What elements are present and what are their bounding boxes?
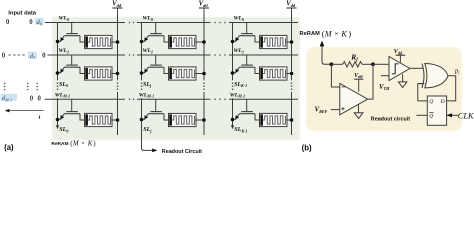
wire bit line 1 with Vdd bar bbox=[112, 8, 122, 135]
node B output bbox=[371, 62, 375, 66]
ReRAM device row 0 col j bbox=[169, 35, 206, 48]
wire bit line 2 with Vdd bar bbox=[199, 8, 209, 135]
transistor cell row 1 col K-1 bbox=[231, 55, 260, 75]
label Readout circuit part b bbox=[371, 116, 410, 122]
transistor cell row 0 col K-1 bbox=[231, 23, 260, 44]
svg-text:SLK-1: SLK-1 bbox=[234, 82, 247, 88]
wire Qbar stub bbox=[417, 114, 428, 116]
input row 1 bit b bbox=[42, 53, 46, 60]
svg-text:(a): (a) bbox=[4, 143, 14, 152]
label SLK-1 bottom bbox=[234, 127, 247, 133]
label SLj middle bbox=[143, 82, 152, 88]
svg-text:D: D bbox=[440, 99, 445, 105]
label Rf bbox=[350, 53, 358, 63]
label pj bbox=[454, 67, 460, 74]
svg-text:Q: Q bbox=[429, 113, 433, 119]
label WL0 (column group 3) bbox=[234, 16, 245, 22]
svg-text:Readout Circuit: Readout Circuit bbox=[162, 149, 202, 155]
wire xor output to D bbox=[447, 76, 456, 101]
time axis arrow bbox=[5, 109, 44, 113]
wire bit line 3 with Vdd bar bbox=[286, 8, 296, 135]
svg-text:Readout circuit: Readout circuit bbox=[371, 116, 410, 122]
label WLM-1 (column group 1) bbox=[55, 92, 70, 98]
label t bbox=[39, 115, 41, 121]
svg-text:×: × bbox=[334, 29, 338, 38]
transistor cell row 1 col 0 bbox=[56, 55, 85, 75]
input row M-1 bit a bbox=[30, 95, 34, 102]
label WL0 (column group 2) bbox=[143, 16, 154, 22]
svg-text:WL1: WL1 bbox=[234, 48, 245, 54]
input d0 highlight bbox=[35, 18, 44, 27]
svg-text:WLM-1: WLM-1 bbox=[230, 92, 245, 98]
wire WL0 row bbox=[45, 22, 298, 24]
resistor Rf bbox=[331, 62, 373, 67]
transistor cell row M-1 col 0 bbox=[56, 99, 85, 121]
comparator U2 bbox=[389, 57, 410, 81]
xor gate G1 bbox=[422, 64, 448, 88]
wire Q feedback to xor bbox=[418, 84, 428, 101]
label SLK-1 middle bbox=[234, 82, 247, 88]
ground op-amp U1 bbox=[354, 104, 363, 119]
power Vdd label column 1 bbox=[112, 1, 122, 8]
label VREF bbox=[315, 107, 328, 114]
wire input arrow to ReRAM bbox=[320, 41, 332, 65]
svg-text:SLj: SLj bbox=[143, 82, 152, 88]
svg-text:WL0: WL0 bbox=[143, 16, 154, 22]
label (b) bbox=[302, 143, 312, 152]
svg-text:WL1: WL1 bbox=[143, 48, 154, 54]
svg-text:WL0: WL0 bbox=[59, 16, 70, 22]
wire SLK-1 vertical bbox=[231, 23, 234, 130]
svg-text:WL0: WL0 bbox=[234, 16, 245, 22]
flip-flop U3 bbox=[427, 96, 446, 125]
label SL0 bottom bbox=[59, 127, 68, 133]
input vdots col b bbox=[27, 83, 29, 91]
crossbar array background bbox=[52, 17, 300, 140]
ReRAM device row M-1 col j bbox=[169, 113, 206, 126]
readout circuit background box bbox=[306, 47, 462, 131]
wire op-amp output up to node B bbox=[368, 64, 373, 99]
svg-text:(b): (b) bbox=[302, 143, 312, 152]
wire SLj to readout elbow bbox=[142, 148, 158, 152]
wire xor lower input bbox=[419, 83, 425, 85]
wire SLj vertical bbox=[141, 23, 143, 149]
svg-text:SLK-1: SLK-1 bbox=[234, 127, 247, 133]
label WL1 (column group 3) bbox=[234, 48, 245, 54]
input d1 highlight bbox=[28, 52, 37, 61]
label ReRAM (M x K) part b bbox=[300, 28, 352, 38]
svg-text:K: K bbox=[340, 29, 347, 38]
svg-text:0: 0 bbox=[42, 53, 46, 60]
power Vdd op-amp U1 bbox=[354, 72, 363, 92]
wire WL1 row bbox=[48, 54, 299, 56]
svg-text:CLK: CLK bbox=[458, 111, 474, 120]
input row 1 dashes bbox=[9, 54, 26, 56]
label Input data bbox=[8, 11, 36, 17]
svg-text:SL0: SL0 bbox=[59, 127, 68, 133]
ReRAM device row M-1 col K-1 bbox=[260, 113, 294, 126]
ReRAM device row M-1 col 0 bbox=[85, 113, 120, 126]
wire VREF to op-amp plus bbox=[331, 109, 340, 111]
svg-text:WLM-1: WLM-1 bbox=[139, 92, 154, 98]
svg-text:0: 0 bbox=[29, 19, 33, 26]
label (a) bbox=[4, 143, 14, 152]
input vdots col a bbox=[4, 83, 6, 91]
wire node B to comparator bbox=[373, 63, 389, 65]
svg-text:SL0: SL0 bbox=[59, 82, 68, 88]
svg-text:ReRAM: ReRAM bbox=[300, 31, 321, 37]
svg-text:WL1: WL1 bbox=[59, 48, 70, 54]
svg-text:WLM-1: WLM-1 bbox=[55, 92, 70, 98]
wire node to op-amp minus bbox=[331, 64, 339, 87]
label Readout Circuit part a bbox=[162, 149, 202, 155]
power Vdd label column 2 bbox=[199, 1, 209, 8]
svg-text:×: × bbox=[81, 140, 85, 147]
input vdots col c bbox=[36, 83, 38, 91]
label ReRAM (M x K) part a bbox=[51, 140, 96, 148]
label SLj bottom bbox=[143, 127, 152, 133]
power Vdd comparator U2 bbox=[394, 48, 406, 63]
transistor cell row 0 col j bbox=[140, 23, 169, 44]
ReRAM device row 0 col 0 bbox=[85, 35, 120, 48]
ReRAM device row 1 col 0 bbox=[85, 67, 120, 80]
svg-text:M: M bbox=[324, 29, 333, 38]
label CLK bbox=[458, 111, 474, 120]
transistor cell row 1 col j bbox=[140, 55, 169, 75]
power Vdd label column 3 bbox=[286, 1, 296, 8]
op-amp U1 bbox=[340, 84, 368, 115]
input row M-1 bit b bbox=[37, 95, 41, 102]
input row 0 bit a bbox=[6, 19, 10, 26]
wire WLM-1 row bbox=[45, 98, 298, 100]
input dM-1 highlight bbox=[1, 94, 18, 103]
svg-text:Q: Q bbox=[429, 99, 433, 105]
svg-text:0: 0 bbox=[30, 95, 34, 102]
wire comparator to XOR bbox=[410, 67, 424, 69]
transistor cell row 0 col 0 bbox=[56, 23, 85, 44]
transistor cell row M-1 col j bbox=[140, 99, 169, 121]
label WL0 (column group 1) bbox=[59, 16, 70, 22]
svg-text:K: K bbox=[87, 141, 93, 148]
svg-text:0: 0 bbox=[2, 53, 6, 60]
ReRAM device row 1 col K-1 bbox=[260, 67, 294, 80]
ReRAM device row 0 col K-1 bbox=[260, 35, 294, 48]
label WL1 (column group 2) bbox=[143, 48, 154, 54]
input row 0 bit b bbox=[29, 19, 33, 26]
label SL0 middle bbox=[59, 82, 68, 88]
label WL1 (column group 1) bbox=[59, 48, 70, 54]
svg-text:Input data: Input data bbox=[8, 11, 36, 17]
ReRAM device row 1 col j bbox=[169, 67, 206, 80]
node A input bbox=[330, 62, 334, 66]
input row 1 bit a bbox=[2, 53, 6, 60]
wire CLK input bbox=[447, 113, 458, 117]
svg-text:SLj: SLj bbox=[143, 127, 152, 133]
label VTH bbox=[379, 84, 390, 91]
transistor cell row M-1 col K-1 bbox=[231, 99, 260, 121]
svg-text:0: 0 bbox=[37, 95, 41, 102]
label WLM-1 (column group 3) bbox=[230, 92, 245, 98]
svg-text:M: M bbox=[72, 141, 79, 148]
wire SL0 vertical bbox=[56, 23, 59, 130]
label WLM-1 (column group 2) bbox=[139, 92, 154, 98]
svg-text:ReRAM: ReRAM bbox=[51, 141, 68, 147]
svg-text:): ) bbox=[348, 28, 351, 38]
ground comparator U2 bbox=[398, 74, 407, 87]
wire VTH to comparator bbox=[381, 75, 389, 77]
svg-text:0: 0 bbox=[6, 19, 10, 26]
